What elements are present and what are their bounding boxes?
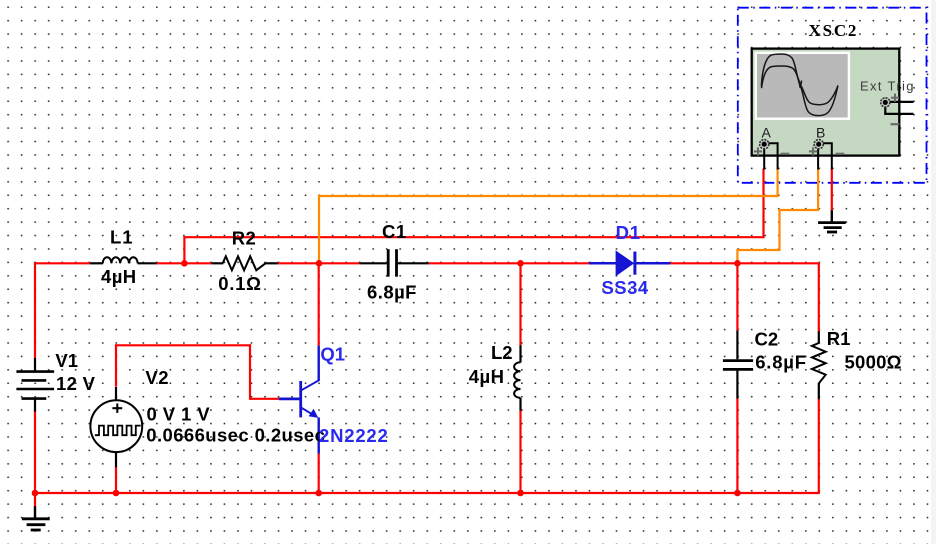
svg-text:C2: C2 [755,328,779,349]
svg-text:6.8µF: 6.8µF [755,352,807,373]
svg-text:4µH: 4µH [101,266,137,287]
svg-text:V2: V2 [145,367,169,388]
svg-text:XSC2: XSC2 [809,21,859,40]
svg-text:2N2222: 2N2222 [319,425,389,446]
svg-text:Ext Trig: Ext Trig [860,79,915,94]
svg-text:0.0666usec 0.2usec: 0.0666usec 0.2usec [146,424,325,445]
svg-text:4µH: 4µH [469,366,505,387]
svg-text:L1: L1 [110,227,134,248]
svg-text:Q1: Q1 [320,343,345,364]
svg-text:0.1Ω: 0.1Ω [218,273,261,294]
svg-text:V1: V1 [55,350,78,371]
svg-text:12 V: 12 V [56,373,96,394]
svg-text:6.8µF: 6.8µF [367,282,417,303]
svg-text:D1: D1 [616,222,641,243]
svg-text:SS34: SS34 [602,277,649,298]
svg-text:L2: L2 [491,342,513,363]
svg-text:0 V 1 V: 0 V 1 V [147,404,211,425]
svg-text:5000Ω: 5000Ω [845,352,902,373]
svg-text:A: A [762,124,772,140]
svg-text:B: B [816,124,825,140]
svg-text:C1: C1 [382,221,407,242]
svg-text:R1: R1 [827,328,851,349]
svg-text:R2: R2 [232,228,256,249]
